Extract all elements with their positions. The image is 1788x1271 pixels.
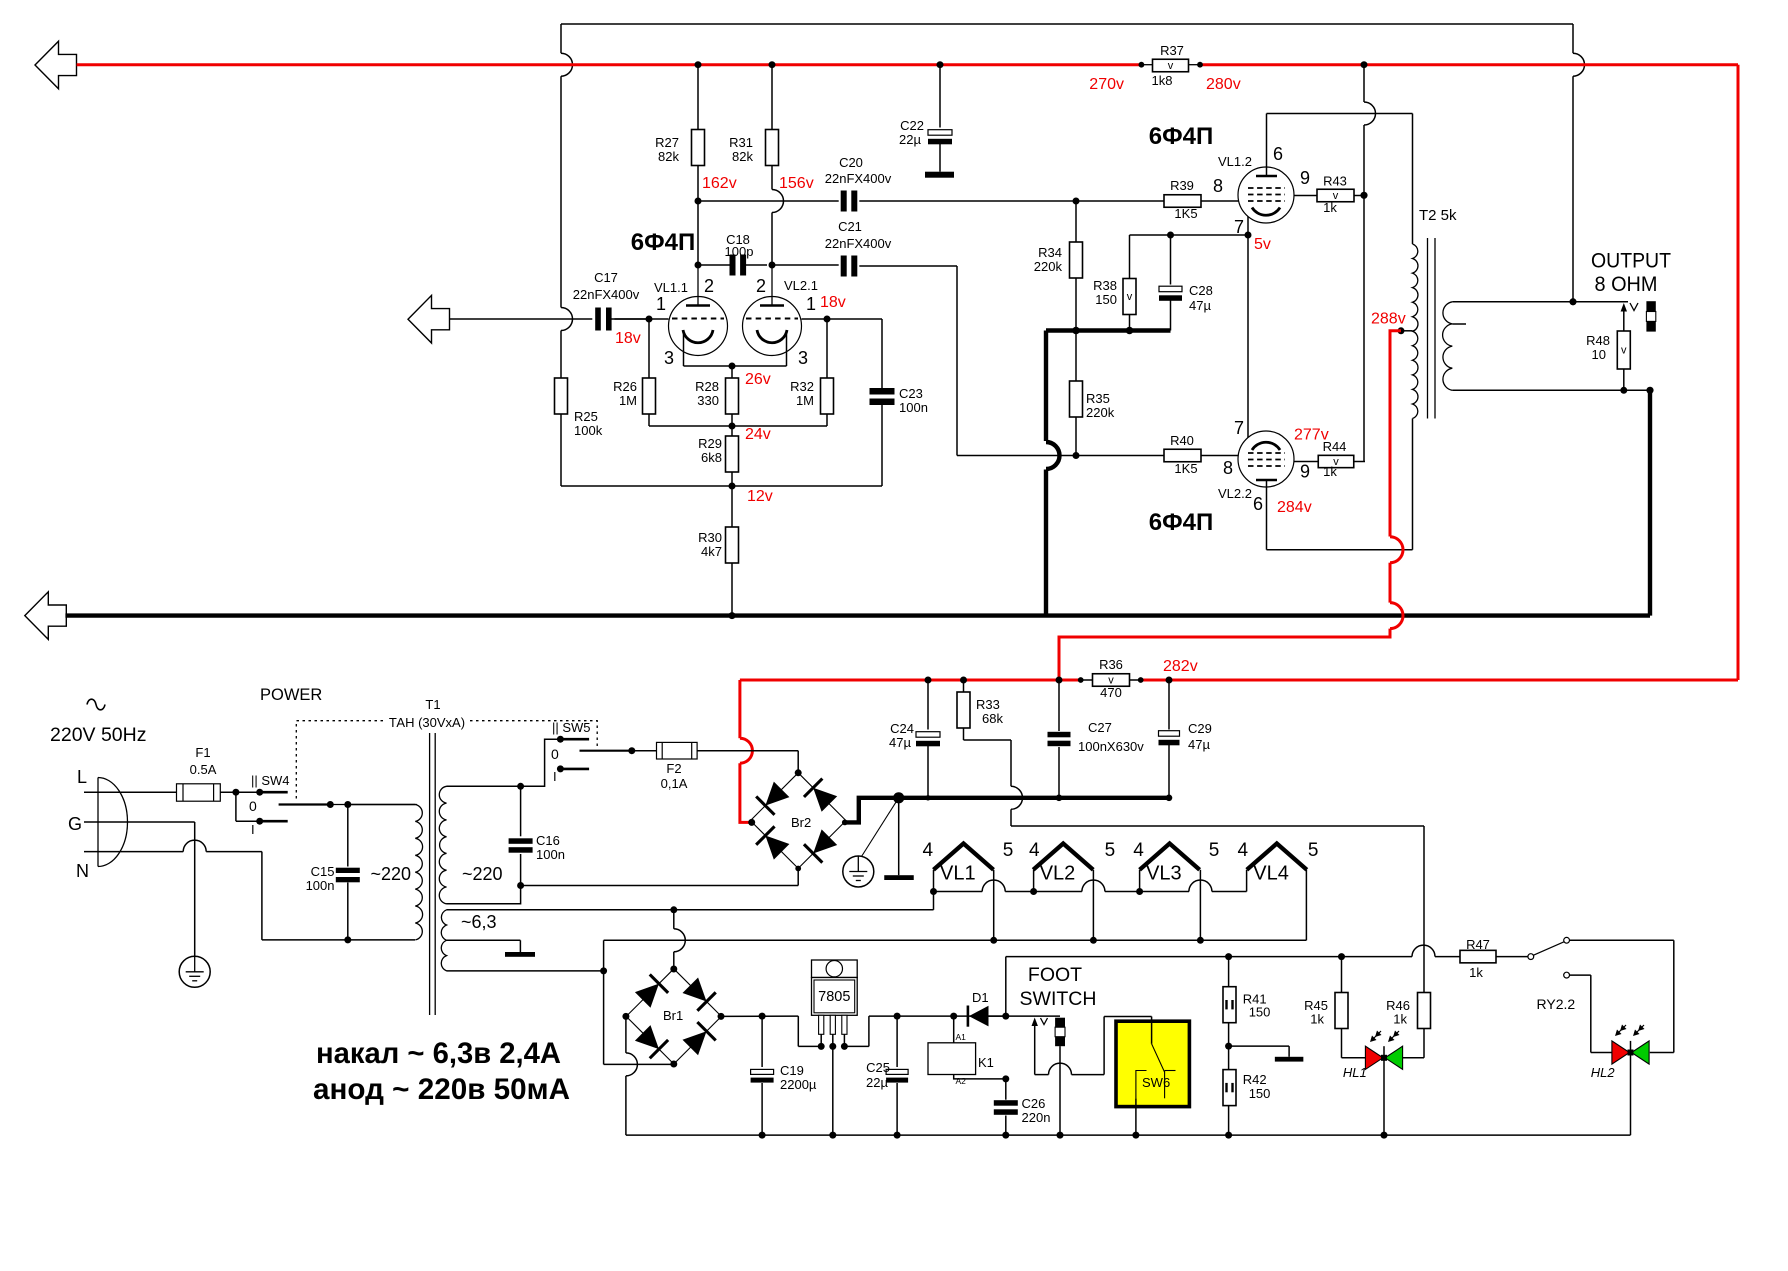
svg-text:8: 8 — [1223, 458, 1233, 478]
svg-text:26v: 26v — [745, 371, 771, 388]
svg-text:22µ: 22µ — [899, 132, 921, 147]
svg-text:7: 7 — [1234, 217, 1244, 237]
svg-text:5: 5 — [1209, 840, 1220, 861]
svg-text:C20: C20 — [839, 155, 863, 170]
svg-text:1k8: 1k8 — [1152, 73, 1173, 88]
svg-text:C25: C25 — [866, 1060, 890, 1075]
svg-text:SW6: SW6 — [1142, 1075, 1170, 1090]
svg-text:100n: 100n — [536, 847, 565, 862]
svg-text:R36: R36 — [1099, 657, 1123, 672]
svg-text:C28: C28 — [1189, 283, 1213, 298]
svg-text:v: v — [1621, 345, 1627, 357]
svg-text:5: 5 — [1105, 840, 1116, 861]
svg-text:v: v — [1127, 291, 1133, 303]
svg-text:1k: 1k — [1310, 1012, 1324, 1027]
svg-text:100p: 100p — [725, 244, 754, 259]
svg-text:C19: C19 — [780, 1063, 804, 1078]
svg-text:RY2.2: RY2.2 — [1537, 996, 1576, 1012]
svg-text:47µ: 47µ — [1189, 298, 1211, 313]
svg-text:6: 6 — [1253, 494, 1263, 514]
svg-text:VL3: VL3 — [1146, 863, 1182, 885]
svg-text:1: 1 — [656, 294, 666, 314]
svg-text:накал ~ 6,3в 2,4А: накал ~ 6,3в 2,4А — [316, 1037, 561, 1070]
svg-text:A1: A1 — [956, 1032, 967, 1042]
svg-text:1k: 1k — [1393, 1012, 1407, 1027]
svg-text:4: 4 — [923, 840, 934, 861]
svg-text:OUTPUT: OUTPUT — [1591, 250, 1671, 273]
svg-text:HL1: HL1 — [1343, 1065, 1367, 1080]
svg-text:VL2.2: VL2.2 — [1218, 486, 1252, 501]
svg-text:6Ф4П: 6Ф4П — [1149, 123, 1213, 150]
svg-text:82k: 82k — [732, 149, 753, 164]
svg-text:VL1.2: VL1.2 — [1218, 154, 1252, 169]
svg-text:R48: R48 — [1586, 333, 1610, 348]
svg-text:C24: C24 — [890, 721, 914, 736]
svg-text:4: 4 — [1238, 840, 1249, 861]
svg-text:VL1.1: VL1.1 — [654, 280, 688, 295]
svg-text:1k: 1k — [1469, 965, 1483, 980]
svg-text:HL2: HL2 — [1591, 1065, 1616, 1080]
svg-text:5v: 5v — [1254, 236, 1271, 253]
svg-text:R47: R47 — [1466, 937, 1490, 952]
svg-text:R27: R27 — [655, 135, 679, 150]
svg-text:150: 150 — [1095, 292, 1117, 307]
svg-text:156v: 156v — [779, 175, 814, 192]
svg-text:R33: R33 — [976, 697, 1000, 712]
svg-text:C21: C21 — [838, 219, 862, 234]
svg-text:288v: 288v — [1371, 311, 1406, 328]
svg-text:22nFX400v: 22nFX400v — [825, 171, 892, 186]
svg-text:2: 2 — [756, 276, 766, 296]
svg-text:9: 9 — [1300, 168, 1310, 188]
svg-text:47µ: 47µ — [889, 735, 911, 750]
svg-text:1K5: 1K5 — [1174, 461, 1197, 476]
svg-text:220k: 220k — [1086, 405, 1115, 420]
svg-text:F2: F2 — [666, 761, 681, 776]
svg-text:4: 4 — [1029, 840, 1040, 861]
svg-text:162v: 162v — [702, 175, 737, 192]
svg-text:C23: C23 — [899, 386, 923, 401]
svg-text:A2: A2 — [956, 1076, 967, 1086]
svg-text:C15: C15 — [311, 864, 335, 879]
svg-text:R40: R40 — [1170, 433, 1194, 448]
svg-text:22nFX400v: 22nFX400v — [573, 287, 640, 302]
svg-text:~220: ~220 — [462, 864, 503, 884]
svg-text:R43: R43 — [1323, 174, 1347, 189]
svg-text:330: 330 — [697, 393, 719, 408]
svg-text:|| SW4: || SW4 — [251, 773, 290, 788]
svg-text:R42: R42 — [1243, 1072, 1267, 1087]
svg-text:0: 0 — [249, 798, 257, 814]
svg-text:R35: R35 — [1086, 391, 1110, 406]
svg-text:1M: 1M — [796, 393, 814, 408]
svg-text:1M: 1M — [619, 393, 637, 408]
svg-text:G: G — [68, 814, 82, 834]
svg-text:R29: R29 — [698, 436, 722, 451]
svg-text:I: I — [553, 769, 557, 784]
svg-text:0.5A: 0.5A — [190, 762, 217, 777]
svg-text:3: 3 — [798, 348, 808, 368]
svg-text:|| SW5: || SW5 — [552, 720, 591, 735]
svg-text:4k7: 4k7 — [701, 544, 722, 559]
svg-text:150: 150 — [1249, 1086, 1271, 1101]
svg-text:~220: ~220 — [370, 864, 411, 884]
svg-text:2200µ: 2200µ — [780, 1077, 817, 1092]
svg-text:100n: 100n — [899, 400, 928, 415]
svg-text:VL1: VL1 — [940, 863, 976, 885]
svg-text:T2 5k: T2 5k — [1419, 207, 1457, 224]
svg-text:18v: 18v — [615, 330, 641, 347]
svg-text:C22: C22 — [900, 118, 924, 133]
svg-text:270v: 270v — [1089, 76, 1124, 93]
svg-text:R30: R30 — [698, 530, 722, 545]
svg-text:Br2: Br2 — [791, 815, 811, 830]
svg-text:6Ф4П: 6Ф4П — [631, 229, 695, 256]
svg-text:22nFX400v: 22nFX400v — [825, 236, 892, 251]
svg-text:F1: F1 — [195, 745, 210, 760]
svg-text:R28: R28 — [695, 379, 719, 394]
svg-text:82k: 82k — [658, 149, 679, 164]
svg-text:2: 2 — [704, 276, 714, 296]
svg-text:R34: R34 — [1038, 245, 1062, 260]
svg-text:8 OHM: 8 OHM — [1595, 273, 1658, 296]
svg-text:v: v — [1168, 60, 1174, 72]
svg-text:1K5: 1K5 — [1174, 206, 1197, 221]
svg-text:I: I — [251, 822, 255, 837]
svg-text:220k: 220k — [1034, 259, 1063, 274]
svg-text:22µ: 22µ — [866, 1075, 888, 1090]
svg-text:R31: R31 — [729, 135, 753, 150]
svg-text:T1: T1 — [425, 697, 440, 712]
svg-text:C27: C27 — [1088, 720, 1112, 735]
svg-text:4: 4 — [1133, 840, 1144, 861]
svg-text:9: 9 — [1300, 462, 1310, 482]
svg-text:1k: 1k — [1323, 464, 1337, 479]
svg-text:N: N — [76, 861, 89, 881]
svg-text:C16: C16 — [536, 833, 560, 848]
svg-text:R25: R25 — [574, 409, 598, 424]
svg-text:284v: 284v — [1277, 499, 1312, 516]
svg-text:R32: R32 — [790, 379, 814, 394]
svg-text:1k: 1k — [1323, 200, 1337, 215]
svg-text:150: 150 — [1249, 1005, 1271, 1020]
svg-text:ТАН (30VxА): ТАН (30VxА) — [389, 715, 465, 730]
svg-text:SWITCH: SWITCH — [1020, 988, 1097, 1010]
svg-text:6Ф4П: 6Ф4П — [1149, 509, 1213, 536]
svg-text:R37: R37 — [1160, 43, 1184, 58]
svg-text:470: 470 — [1100, 685, 1122, 700]
svg-text:C29: C29 — [1188, 721, 1212, 736]
svg-text:VL2: VL2 — [1040, 863, 1076, 885]
svg-text:0,1A: 0,1A — [661, 776, 688, 791]
svg-text:280v: 280v — [1206, 76, 1241, 93]
svg-text:L: L — [77, 767, 87, 787]
svg-text:10: 10 — [1592, 347, 1606, 362]
svg-text:12v: 12v — [747, 488, 773, 505]
svg-text:R38: R38 — [1093, 278, 1117, 293]
svg-text:VL2.1: VL2.1 — [784, 278, 818, 293]
svg-text:VL4: VL4 — [1253, 863, 1289, 885]
svg-text:100nX630v: 100nX630v — [1078, 739, 1144, 754]
svg-text:100n: 100n — [306, 878, 335, 893]
svg-text:0: 0 — [551, 746, 559, 762]
svg-text:100k: 100k — [574, 423, 603, 438]
svg-text:POWER: POWER — [260, 686, 322, 704]
svg-text:5: 5 — [1003, 840, 1014, 861]
svg-text:18v: 18v — [820, 294, 846, 311]
svg-text:47µ: 47µ — [1188, 737, 1210, 752]
svg-text:~6,3: ~6,3 — [461, 912, 497, 932]
svg-text:8: 8 — [1213, 176, 1223, 196]
svg-text:R26: R26 — [613, 379, 637, 394]
svg-text:K1: K1 — [978, 1055, 994, 1070]
svg-text:D1: D1 — [972, 990, 989, 1005]
svg-text:FOOT: FOOT — [1028, 964, 1082, 986]
svg-text:C26: C26 — [1022, 1096, 1046, 1111]
svg-text:6: 6 — [1273, 144, 1283, 164]
svg-text:Br1: Br1 — [663, 1008, 683, 1023]
svg-text:24v: 24v — [745, 426, 771, 443]
svg-text:277v: 277v — [1294, 427, 1329, 444]
svg-text:3: 3 — [664, 348, 674, 368]
svg-text:68k: 68k — [982, 711, 1003, 726]
svg-text:C17: C17 — [594, 270, 618, 285]
svg-text:R39: R39 — [1170, 178, 1194, 193]
svg-text:282v: 282v — [1163, 658, 1198, 675]
svg-text:7: 7 — [1234, 418, 1244, 438]
svg-text:5: 5 — [1308, 840, 1319, 861]
svg-text:6k8: 6k8 — [701, 450, 722, 465]
svg-text:7805: 7805 — [818, 989, 850, 1005]
svg-text:анод ~ 220в 50мА: анод ~ 220в 50мА — [313, 1073, 570, 1106]
svg-text:220V 50Hz: 220V 50Hz — [50, 724, 146, 746]
svg-text:220n: 220n — [1022, 1110, 1051, 1125]
svg-text:1: 1 — [806, 294, 816, 314]
